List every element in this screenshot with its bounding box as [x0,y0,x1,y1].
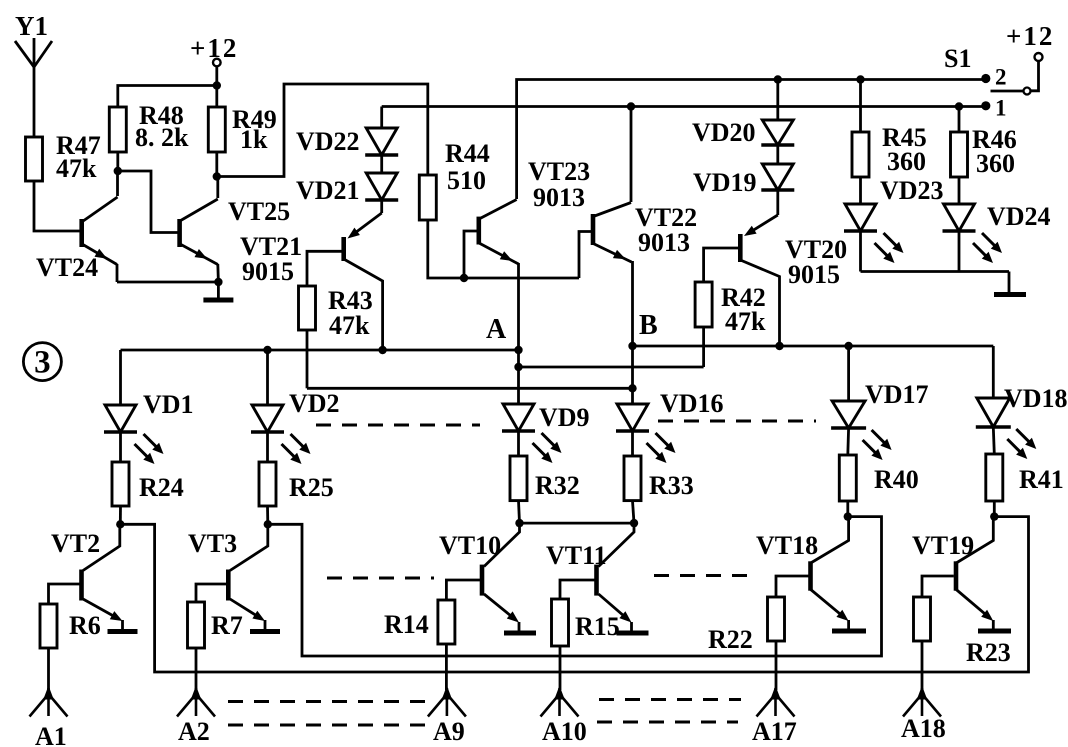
svg-text:VD18: VD18 [1004,384,1068,413]
diode VD9 [502,403,590,463]
svg-text:A1: A1 [35,722,67,747]
svg-text:S1: S1 [944,44,971,73]
svg-text:A10: A10 [542,717,587,746]
svg-text:VT25: VT25 [228,197,290,226]
diode VD19 [693,145,794,197]
wire - bus to contact 1 [382,107,983,129]
wire - feedback bus outer [120,517,1028,672]
transistor VT20 [740,190,847,346]
svg-text:B: B [639,310,658,341]
node [263,346,271,354]
wire - feedback bus inner [268,517,882,656]
dashed continuation [228,724,425,727]
node A [486,314,523,354]
wire [861,231,1010,272]
resistor R24 [112,432,184,506]
diode VD17 [831,342,928,460]
svg-text:VT18: VT18 [756,531,818,560]
diode VD23 [844,176,944,263]
svg-text:VD21: VD21 [296,176,360,205]
node [116,506,124,529]
svg-text:R22: R22 [708,625,753,654]
svg-text:R7: R7 [211,611,243,640]
svg-text:+12: +12 [1006,21,1054,51]
ground [203,282,233,300]
node [775,342,783,350]
node [460,274,468,282]
ground [108,620,138,632]
svg-text:47k: 47k [56,154,97,183]
resistor R45 [852,75,927,177]
svg-text:VD19: VD19 [693,168,757,197]
switch S1 [944,21,1054,121]
node [628,384,636,392]
terminal A1 [30,648,68,747]
dashed continuation [658,420,816,423]
wire [428,220,592,278]
svg-text:R15: R15 [575,612,620,641]
node [774,75,782,83]
transistor VT21 [240,200,383,350]
svg-text:47k: 47k [329,311,370,340]
svg-text:9015: 9015 [242,257,294,286]
resistor R44 [419,139,489,220]
svg-text:510: 510 [447,166,486,195]
svg-text:2: 2 [995,65,1007,90]
node [213,81,221,89]
diode VD18 [976,346,1068,459]
resistor R7 [188,584,243,648]
terminal A2 [177,648,215,746]
dashed continuation [327,577,434,580]
svg-text:1k: 1k [240,125,268,154]
wire [34,181,80,231]
wire [217,84,428,177]
transistor VT23 [479,157,590,264]
svg-text:VT11: VT11 [546,541,607,570]
svg-text:VT23: VT23 [528,157,590,186]
diode VD2 [251,350,340,464]
wire [117,264,218,282]
resistor R47 [26,131,101,183]
svg-text:R41: R41 [1019,465,1064,494]
resistor R46 [951,102,1017,178]
resistor R23 [914,576,1011,667]
terminal A10 [541,646,587,746]
terminal A18 [901,641,946,743]
resistor R32 [510,431,580,501]
transistor VT25 [180,197,291,265]
+12 terminal [190,33,238,86]
diode VD1 [104,350,194,464]
transistor VT18 [756,517,849,621]
node [627,102,635,110]
resistor R43 [299,251,373,340]
svg-text:R25: R25 [289,473,334,502]
wire - net A vertical [517,263,520,404]
node [630,501,638,528]
svg-text:VT2: VT2 [51,529,100,558]
svg-text:R33: R33 [649,471,694,500]
svg-text:47k: 47k [725,307,766,336]
svg-text:A9: A9 [433,717,465,746]
transistor VT24 [36,197,118,282]
resistor R14 [384,580,480,644]
svg-text:VD23: VD23 [880,176,944,205]
svg-text:9013: 9013 [533,183,585,212]
wire [380,155,383,173]
wire [116,171,119,196]
node [990,501,998,521]
ground [832,620,866,631]
svg-text:VD17: VD17 [865,380,929,409]
svg-text:VT19: VT19 [912,531,974,560]
svg-text:A18: A18 [901,714,946,743]
diode VD16 [616,389,724,463]
dashed continuation [228,700,428,703]
resistor R42 [695,248,766,367]
svg-text:R14: R14 [384,610,429,639]
svg-text:+12: +12 [190,33,238,63]
ground [978,620,1011,631]
node B [628,310,657,350]
resistor R49 [208,86,276,155]
ground [504,622,536,633]
node [378,346,386,354]
resistor R41 [986,427,1064,501]
transistor VT11 [546,527,634,623]
svg-text:360: 360 [976,149,1015,178]
label Y1 [15,11,48,41]
svg-text:VT10: VT10 [439,531,501,560]
wire - jog [514,363,703,371]
svg-text:9015: 9015 [788,260,840,289]
svg-text:R24: R24 [139,473,184,502]
svg-text:VD20: VD20 [692,118,756,147]
svg-text:A2: A2 [178,717,210,746]
resistor R40 [839,428,918,501]
node [264,506,272,529]
svg-text:360: 360 [887,147,926,176]
antenna Y1 [15,38,52,137]
svg-text:VD24: VD24 [987,202,1051,231]
svg-text:VD16: VD16 [660,389,724,418]
svg-text:1: 1 [995,96,1007,121]
svg-text:R32: R32 [535,471,580,500]
svg-text:A: A [486,314,507,345]
resistor R48 [109,101,189,152]
transistor VT3 [188,526,268,621]
svg-text:VD9: VD9 [539,403,590,432]
svg-text:R6: R6 [69,611,101,640]
wire [520,522,635,525]
svg-text:VT24: VT24 [36,253,98,282]
resistor R22 [708,576,809,654]
svg-text:Y1: Y1 [15,11,48,41]
wire - bus A left [121,349,519,352]
svg-text:VD22: VD22 [296,127,360,156]
transistor VT2 [51,526,123,621]
node [213,172,221,180]
transistor VT19 [912,517,993,621]
svg-text:3: 3 [34,345,51,381]
svg-text:R40: R40 [874,465,919,494]
diode VD21 [296,173,398,205]
wire [630,107,633,203]
svg-text:8. 2k: 8. 2k [135,123,189,152]
wire [216,177,219,199]
dashed continuation [599,698,741,701]
svg-text:R23: R23 [966,638,1011,667]
wire [215,152,218,177]
svg-text:VD1: VD1 [143,390,194,419]
resistor R33 [624,431,694,501]
node [214,278,222,286]
marker - circled 3 [23,343,61,381]
dashed continuation [654,574,754,577]
svg-text:VT3: VT3 [188,529,237,558]
svg-text:A17: A17 [752,717,797,746]
svg-text:VD2: VD2 [289,389,340,418]
diode VD20 [692,80,794,148]
svg-text:R44: R44 [445,139,490,168]
resistor R25 [259,432,334,506]
diode VD22 [296,127,398,156]
terminal A9 [428,644,466,746]
transistor VT22 [593,203,697,263]
ground [617,622,649,633]
wire [118,171,180,233]
ground [250,620,280,632]
dashed continuation [316,424,480,427]
node [844,501,852,521]
wire - bus to contact 2 [517,80,983,200]
dashed continuation [597,721,738,724]
resistor R15 [552,580,620,646]
diode VD24 [943,177,1051,263]
node [515,501,523,528]
node [114,167,122,175]
svg-text:9013: 9013 [638,228,690,257]
ground [994,272,1026,295]
wire - H3 bus [307,330,633,388]
wire [118,86,217,172]
terminal A17 [752,641,797,746]
transistor VT10 [439,527,520,623]
wire - net B vertical [631,261,634,404]
wire - bus B right [633,345,994,348]
resistor R6 [40,584,101,648]
